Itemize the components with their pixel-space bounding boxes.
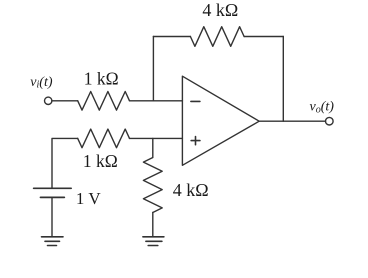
resistor R4 4 kOhm (vertical) — [143, 158, 162, 213]
wire battery to ground — [51, 197, 53, 236]
resistor R3 1 kOhm (lower input) — [78, 129, 130, 148]
wire R3 to op-amp non-inverting input — [130, 137, 183, 139]
svg-text:1 kΩ: 1 kΩ — [83, 151, 118, 171]
resistor R1 1 kOhm (top input) — [78, 92, 130, 111]
input terminal vi(t) — [45, 97, 52, 104]
op-amp plus sign — [191, 140, 200, 142]
op-amp U1 triangle — [182, 76, 259, 165]
wire op-amp output — [259, 120, 325, 122]
wire feedback vertical up — [152, 37, 154, 101]
wire input terminal to R1 — [52, 100, 78, 102]
ground (under R4) — [143, 236, 164, 238]
svg-text:1 V: 1 V — [76, 189, 101, 208]
svg-text:4 kΩ: 4 kΩ — [173, 180, 209, 200]
wire lower branch corner to R3 — [52, 138, 78, 188]
wire feedback vertical down to output — [282, 37, 284, 122]
wire feedback top right segment — [244, 36, 283, 38]
wire R1 to op-amp inverting input — [130, 100, 183, 102]
svg-text:1 kΩ: 1 kΩ — [84, 69, 119, 89]
resistor R2 4 kOhm (feedback) — [190, 27, 244, 47]
svg-text:vo(t): vo(t) — [310, 100, 335, 116]
op-amp minus sign — [191, 100, 200, 102]
svg-text:vi(t): vi(t) — [30, 75, 53, 91]
wire R4 to ground — [152, 213, 154, 237]
battery V1 1 V bottom plate — [41, 196, 65, 198]
ground (under battery) — [42, 236, 64, 238]
wire feedback top left segment — [153, 36, 190, 38]
battery V1 1 V top plate — [34, 187, 72, 189]
output terminal vo(t) — [326, 117, 334, 125]
wire junction down to R4 — [152, 138, 154, 157]
svg-text:4 kΩ: 4 kΩ — [202, 0, 238, 20]
